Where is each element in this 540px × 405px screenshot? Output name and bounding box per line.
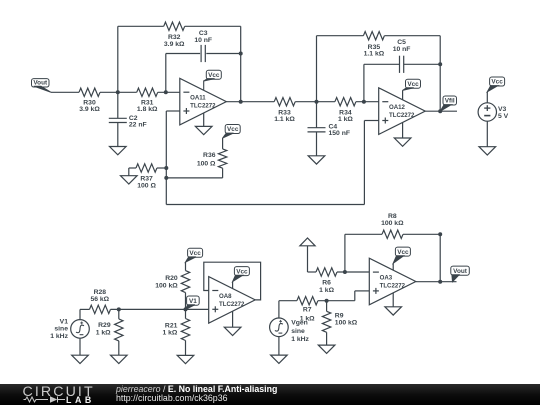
svg-text:sine: sine (291, 328, 305, 335)
svg-text:1 kHz: 1 kHz (50, 333, 68, 340)
svg-text:R6: R6 (322, 280, 331, 287)
svg-text:1.1 kΩ: 1.1 kΩ (274, 116, 295, 123)
svg-text:OA8: OA8 (219, 293, 232, 300)
svg-text:Vout: Vout (33, 80, 48, 87)
svg-text:TLC2272: TLC2272 (219, 301, 245, 308)
svg-text:100 kΩ: 100 kΩ (335, 319, 358, 326)
svg-text:R7: R7 (303, 307, 312, 314)
svg-text:100 kΩ: 100 kΩ (155, 283, 178, 290)
svg-text:10 nF: 10 nF (393, 46, 411, 53)
svg-text:Vcc: Vcc (189, 250, 201, 257)
svg-text:1 kHz: 1 kHz (291, 336, 309, 343)
svg-text:TLC2272: TLC2272 (380, 282, 406, 289)
svg-text:10 nF: 10 nF (194, 37, 212, 44)
svg-text:TLC2272: TLC2272 (190, 103, 216, 110)
svg-text:1.8 kΩ: 1.8 kΩ (137, 106, 158, 113)
svg-text:OA3: OA3 (380, 275, 393, 282)
svg-text:V1: V1 (189, 298, 197, 305)
svg-text:1 kΩ: 1 kΩ (319, 287, 334, 294)
svg-text:Vcc: Vcc (227, 126, 239, 133)
svg-text:V3: V3 (498, 106, 507, 113)
svg-text:1 kΩ: 1 kΩ (96, 330, 111, 337)
svg-text:http://circuitlab.com/ck36p36: http://circuitlab.com/ck36p36 (116, 393, 228, 403)
svg-text:Vcc: Vcc (491, 79, 503, 86)
svg-text:R28: R28 (94, 289, 107, 296)
svg-text:Vcc: Vcc (208, 72, 220, 79)
svg-text:TLC2272: TLC2272 (389, 112, 415, 119)
svg-text:150 nF: 150 nF (329, 130, 351, 137)
svg-text:V1: V1 (60, 318, 69, 325)
svg-text:1 kΩ: 1 kΩ (162, 329, 177, 336)
svg-text:Vfil: Vfil (445, 98, 455, 105)
svg-text:5 V: 5 V (498, 113, 509, 120)
svg-text:1 kΩ: 1 kΩ (338, 116, 353, 123)
svg-text:1 kΩ: 1 kΩ (300, 315, 315, 322)
svg-text:3.9 kΩ: 3.9 kΩ (79, 106, 100, 113)
svg-text:R21: R21 (165, 322, 178, 329)
svg-text:sine: sine (54, 326, 68, 333)
svg-text:OA12: OA12 (389, 104, 406, 111)
svg-text:R20: R20 (165, 275, 178, 282)
svg-text:OA11: OA11 (190, 95, 206, 102)
svg-text:Vcc: Vcc (397, 249, 409, 256)
svg-text:100 kΩ: 100 kΩ (381, 220, 404, 227)
svg-text:3.9 kΩ: 3.9 kΩ (164, 41, 185, 48)
svg-text:R36: R36 (203, 152, 216, 159)
svg-text:1.1 kΩ: 1.1 kΩ (364, 51, 385, 58)
svg-text:R37: R37 (140, 175, 153, 182)
svg-text:R8: R8 (388, 213, 397, 220)
svg-text:56 kΩ: 56 kΩ (90, 296, 109, 303)
svg-text:100 Ω: 100 Ω (137, 182, 156, 189)
svg-text:LAB: LAB (66, 395, 95, 405)
svg-text:100 Ω: 100 Ω (197, 160, 216, 167)
svg-text:R29: R29 (98, 322, 111, 329)
svg-text:22 nF: 22 nF (129, 122, 147, 129)
svg-text:Vcc: Vcc (407, 81, 419, 88)
svg-text:Vout: Vout (453, 268, 468, 275)
svg-text:Vcc: Vcc (236, 268, 248, 275)
